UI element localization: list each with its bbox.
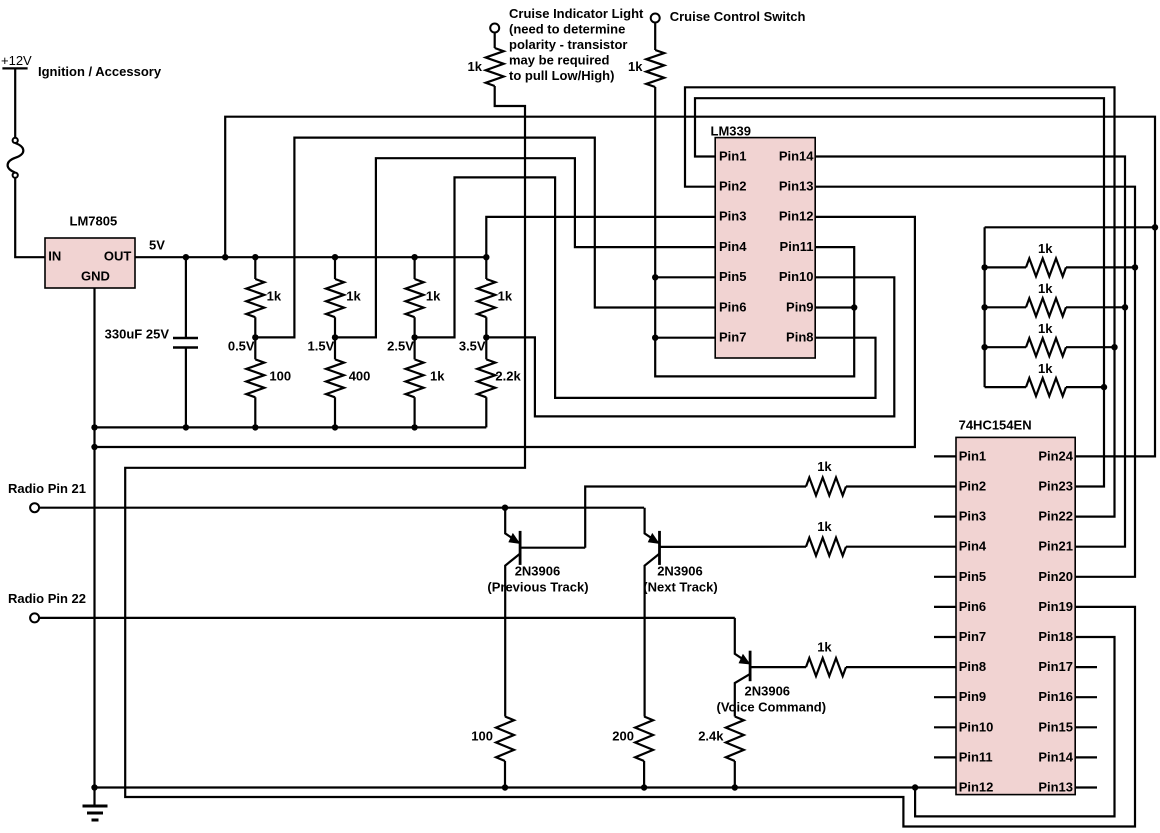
wire LM339 Pin12 to ground bbox=[95, 217, 915, 447]
svg-text:74HC154EN: 74HC154EN bbox=[959, 418, 1032, 433]
wire 74HC154EN Pin13 stub bbox=[1075, 786, 1097, 788]
svg-text:(Previous Track): (Previous Track) bbox=[487, 580, 588, 595]
resistor R12 1k (ladder 2) bbox=[985, 298, 1125, 316]
wire LM339 Pin9 stub bbox=[815, 306, 854, 308]
svg-text:1k: 1k bbox=[346, 289, 361, 304]
resistor R1 1k (divider 1) bbox=[246, 257, 264, 337]
terminal Radio Pin 21 bbox=[30, 503, 39, 512]
resistor R7 1k (divider 4) bbox=[477, 257, 495, 337]
svg-text:5V: 5V bbox=[149, 238, 165, 253]
svg-text:Pin6: Pin6 bbox=[959, 599, 986, 614]
svg-text:2N3906: 2N3906 bbox=[515, 564, 561, 579]
svg-text:2N3906: 2N3906 bbox=[745, 684, 791, 699]
svg-text:1k: 1k bbox=[498, 289, 513, 304]
svg-text:1k: 1k bbox=[817, 459, 832, 474]
svg-text:330uF 25V: 330uF 25V bbox=[105, 327, 170, 342]
capacitor C1 330uF 25V bbox=[173, 257, 198, 427]
wire 5V up to top rail across to Pin24 of 74HC154EN bbox=[225, 117, 1155, 457]
wire 1.5V node to LM339 Pin4 bbox=[335, 158, 715, 337]
svg-text:Pin7: Pin7 bbox=[719, 330, 746, 345]
svg-text:Pin9: Pin9 bbox=[959, 689, 986, 704]
svg-text:200: 200 bbox=[612, 729, 634, 744]
wire breaker to LM7805 IN bbox=[15, 178, 45, 257]
svg-text:Pin12: Pin12 bbox=[959, 780, 994, 795]
svg-text:1k: 1k bbox=[267, 289, 282, 304]
wire 74HC154EN Pin7 stub bbox=[934, 636, 956, 638]
wire LM339 Pin5 stub bbox=[655, 276, 715, 278]
svg-text:Radio Pin 22: Radio Pin 22 bbox=[8, 591, 86, 606]
wire 2.5V node to LM339 Pin8 bbox=[415, 177, 876, 398]
svg-text:1k: 1k bbox=[426, 289, 441, 304]
svg-text:Pin12: Pin12 bbox=[779, 209, 814, 224]
wire LM339 Pin11 loop to Pin7 node bbox=[655, 247, 854, 376]
svg-text:Cruise Indicator Light: Cruise Indicator Light bbox=[509, 6, 644, 21]
svg-text:Pin10: Pin10 bbox=[959, 719, 994, 734]
terminal Radio Pin 22 bbox=[30, 613, 39, 622]
svg-text:2.4k: 2.4k bbox=[698, 729, 724, 744]
resistor R10 1k (switch) bbox=[646, 23, 664, 88]
resistor R6 1k (divider 3) bbox=[406, 337, 424, 427]
svg-text:Pin3: Pin3 bbox=[959, 509, 986, 524]
svg-text:may be required: may be required bbox=[509, 53, 609, 68]
svg-text:Pin9: Pin9 bbox=[786, 299, 813, 314]
node +12V terminal bar bbox=[2, 67, 27, 69]
wire Radio Pin 21 line bbox=[39, 507, 644, 509]
svg-text:100: 100 bbox=[269, 369, 291, 384]
resistor R17 1k (Pin8 input) bbox=[806, 658, 956, 676]
resistor R11 1k (ladder 1) bbox=[985, 258, 1135, 276]
svg-text:1k: 1k bbox=[1038, 281, 1053, 296]
svg-text:Pin6: Pin6 bbox=[719, 299, 746, 314]
svg-text:100: 100 bbox=[471, 729, 493, 744]
wire Radio Pin 22 line bbox=[39, 617, 735, 619]
resistor R16 1k (Pin4 input) bbox=[806, 538, 956, 556]
svg-text:Pin17: Pin17 bbox=[1038, 659, 1073, 674]
svg-text:Pin15: Pin15 bbox=[1038, 719, 1073, 734]
transistor Q3 2N3906 (Voice Command) bbox=[735, 618, 806, 717]
wire 0.5V node to LM339 Pin6 bbox=[255, 138, 715, 338]
svg-text:2.2k: 2.2k bbox=[495, 369, 521, 384]
svg-text:1k: 1k bbox=[430, 369, 445, 384]
ground bbox=[83, 806, 108, 820]
wire switch down to LM339 Pin7 node bbox=[654, 87, 656, 338]
transistor Q2 2N3906 (Next Track) bbox=[645, 508, 806, 717]
svg-text:(Voice Command): (Voice Command) bbox=[717, 700, 827, 715]
svg-text:Pin13: Pin13 bbox=[1038, 780, 1073, 795]
op-amp U2 LM339 bbox=[715, 138, 815, 358]
svg-text:Pin14: Pin14 bbox=[779, 148, 814, 163]
resistor R18 100 (Q1 collector) bbox=[496, 717, 514, 788]
svg-text:polarity - transistor: polarity - transistor bbox=[509, 37, 627, 52]
resistor R2 100 (divider 1) bbox=[246, 337, 264, 427]
svg-text:1k: 1k bbox=[1038, 241, 1053, 256]
svg-text:Pin8: Pin8 bbox=[959, 659, 986, 674]
svg-text:Pin16: Pin16 bbox=[1038, 689, 1073, 704]
decoder U3 74HC154EN bbox=[956, 437, 1075, 794]
svg-text:Pin5: Pin5 bbox=[959, 569, 986, 584]
svg-text:Pin1: Pin1 bbox=[719, 148, 746, 163]
terminal Cruise Control Switch bbox=[651, 14, 660, 23]
resistor R15 1k (Pin2 input) bbox=[806, 478, 956, 496]
wire LM339 Pin7 stub bbox=[655, 337, 715, 339]
wire 74HC154EN Pin3 stub bbox=[934, 515, 956, 517]
wire from +12V to breaker bbox=[14, 68, 16, 138]
resistor R4 400 (divider 2) bbox=[326, 337, 344, 427]
wire 74HC154EN Pin14 stub bbox=[1075, 756, 1097, 758]
resistor R9 1k (indicator) bbox=[486, 33, 504, 87]
svg-text:1k: 1k bbox=[817, 519, 832, 534]
resistor R13 1k (ladder 3) bbox=[985, 338, 1115, 356]
wire LM339 Pin2 to 74HC154EN Pin22 bbox=[685, 87, 1115, 516]
terminal Cruise Indicator Light bbox=[490, 24, 499, 33]
svg-text:Pin3: Pin3 bbox=[719, 209, 746, 224]
node junction dots bbox=[91, 224, 1158, 791]
svg-text:Pin4: Pin4 bbox=[959, 539, 987, 554]
svg-text:(Next Track): (Next Track) bbox=[643, 580, 717, 595]
svg-text:GND: GND bbox=[81, 268, 110, 283]
svg-text:Pin4: Pin4 bbox=[719, 239, 747, 254]
svg-text:1.5V: 1.5V bbox=[308, 339, 335, 354]
svg-text:0.5V: 0.5V bbox=[228, 339, 255, 354]
wire 3.5V node to LM339 Pin10 bbox=[486, 277, 894, 416]
regulator U1 LM7805 bbox=[45, 238, 135, 288]
wire 74HC154EN Pin10 stub bbox=[934, 726, 956, 728]
svg-text:Pin10: Pin10 bbox=[779, 269, 814, 284]
wire LM339 Pin13 to 74HC154EN Pin20 bbox=[815, 187, 1135, 577]
svg-text:LM7805: LM7805 bbox=[70, 214, 118, 229]
wire ground to 74HC154EN Pin18 bbox=[915, 637, 1114, 816]
circuit breaker F1 bbox=[8, 138, 24, 178]
resistor R14 1k (ladder 4) bbox=[985, 378, 1104, 396]
wire 5V to LM339 Pin3 bbox=[486, 217, 715, 257]
svg-text:2N3906: 2N3906 bbox=[657, 564, 703, 579]
svg-text:1k: 1k bbox=[1038, 321, 1053, 336]
svg-text:Pin1: Pin1 bbox=[959, 448, 986, 463]
svg-text:Pin2: Pin2 bbox=[719, 179, 746, 194]
wire LM339 Pin14 to 74HC154EN Pin21 bbox=[815, 157, 1125, 547]
wire bottom ground bus to 74HC154EN Pin12 bbox=[95, 786, 957, 788]
svg-text:Pin18: Pin18 bbox=[1038, 629, 1073, 644]
svg-text:1k: 1k bbox=[817, 640, 832, 655]
resistor R5 1k (divider 3) bbox=[406, 257, 424, 337]
svg-text:1k: 1k bbox=[468, 59, 483, 74]
resistor ladder top rail bbox=[985, 227, 1155, 387]
svg-text:Pin11: Pin11 bbox=[959, 749, 993, 764]
wire 74HC154EN Pin17 stub bbox=[1075, 666, 1097, 668]
wire LM7805 GND to ground bbox=[93, 288, 95, 806]
wire 74HC154EN Pin1 stub bbox=[934, 455, 956, 457]
svg-text:Pin11: Pin11 bbox=[780, 239, 814, 254]
svg-text:Pin23: Pin23 bbox=[1038, 479, 1073, 494]
svg-text:to pull Low/High): to pull Low/High) bbox=[509, 68, 614, 83]
svg-text:LM339: LM339 bbox=[711, 124, 751, 139]
svg-text:Pin2: Pin2 bbox=[959, 479, 986, 494]
svg-text:3.5V: 3.5V bbox=[459, 339, 486, 354]
svg-text:Cruise Control Switch: Cruise Control Switch bbox=[670, 9, 806, 24]
svg-text:400: 400 bbox=[349, 369, 371, 384]
wire 74HC154EN Pin15 stub bbox=[1075, 726, 1097, 728]
wire 5V rail bbox=[135, 256, 486, 258]
svg-text:Ignition / Accessory: Ignition / Accessory bbox=[38, 64, 162, 79]
svg-text:1k: 1k bbox=[1038, 361, 1053, 376]
svg-text:OUT: OUT bbox=[104, 249, 132, 264]
svg-text:+12V: +12V bbox=[1, 53, 32, 68]
svg-text:Pin24: Pin24 bbox=[1038, 448, 1073, 463]
wire 74HC154EN Pin16 stub bbox=[1075, 696, 1097, 698]
svg-text:IN: IN bbox=[48, 249, 61, 264]
resistor R3 1k (divider 2) bbox=[326, 257, 344, 337]
svg-text:Pin22: Pin22 bbox=[1038, 509, 1073, 524]
wire Q1 base up to Pin2 row bbox=[585, 487, 806, 548]
svg-text:1k: 1k bbox=[628, 59, 643, 74]
svg-text:Pin8: Pin8 bbox=[786, 330, 813, 345]
wire 74HC154EN Pin9 stub bbox=[934, 696, 956, 698]
svg-text:Pin5: Pin5 bbox=[719, 269, 746, 284]
svg-text:Pin19: Pin19 bbox=[1038, 599, 1073, 614]
wire 74HC154EN Pin5 stub bbox=[934, 576, 956, 578]
resistor R19 200 (Q2 collector) bbox=[635, 717, 653, 788]
wire indicator light loop to 74HC154EN Pin19 bbox=[125, 86, 1135, 827]
svg-text:2.5V: 2.5V bbox=[387, 339, 414, 354]
svg-text:Pin21: Pin21 bbox=[1038, 539, 1073, 554]
transistor Q1 2N3906 (Previous Track) bbox=[505, 508, 585, 717]
svg-text:(need to determine: (need to determine bbox=[509, 22, 625, 37]
svg-text:Pin14: Pin14 bbox=[1038, 749, 1073, 764]
label Cruise Indicator Light note bbox=[509, 6, 644, 83]
wire ground bus under dividers bbox=[95, 426, 487, 428]
wire 74HC154EN Pin11 stub bbox=[934, 756, 956, 758]
resistor R20 2.4k (Q3 collector) bbox=[726, 717, 744, 788]
resistor R8 2.2k (divider 4) bbox=[477, 337, 495, 427]
svg-text:Pin20: Pin20 bbox=[1038, 569, 1073, 584]
wire 74HC154EN Pin6 stub bbox=[934, 606, 956, 608]
svg-text:Radio Pin 21: Radio Pin 21 bbox=[8, 481, 86, 496]
svg-text:Pin13: Pin13 bbox=[779, 179, 814, 194]
wire LM339 Pin1 to 74HC154EN Pin23 bbox=[695, 98, 1104, 486]
svg-text:Pin7: Pin7 bbox=[959, 629, 986, 644]
